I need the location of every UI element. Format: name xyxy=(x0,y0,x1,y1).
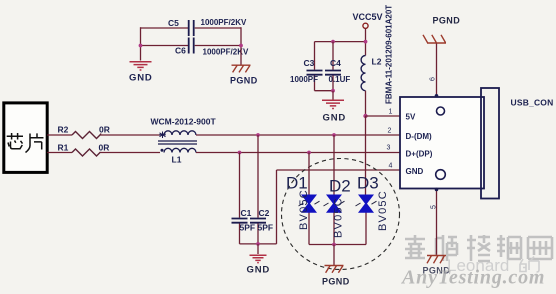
wire GND pin4 horizontal xyxy=(277,169,401,171)
svg-text:C2: C2 xyxy=(259,208,270,218)
junction D1 on D+ xyxy=(307,151,311,155)
connector shell rectangle xyxy=(481,88,499,199)
svg-text:0R: 0R xyxy=(99,142,110,152)
svg-text:R2: R2 xyxy=(58,125,69,135)
svg-text:PGND: PGND xyxy=(433,16,461,26)
svg-text:BV05C: BV05C xyxy=(298,189,310,230)
svg-text:4: 4 xyxy=(389,163,393,170)
wire C3/C4 branch xyxy=(315,41,366,43)
svg-text:D3: D3 xyxy=(357,174,379,193)
wire VCC vertical xyxy=(365,28,367,55)
pin 6 label xyxy=(430,77,437,81)
wire C1/C2 ground rail xyxy=(240,243,277,245)
power ground PGND top-left xyxy=(232,65,251,72)
svg-text:GND: GND xyxy=(406,167,424,176)
wire C5 right lead xyxy=(195,27,241,29)
svg-text:FBMA-11-201209-601A20T: FBMA-11-201209-601A20T xyxy=(385,5,394,104)
svg-text:0R: 0R xyxy=(99,125,110,135)
junction diode rail xyxy=(332,243,336,247)
wire C6 left lead xyxy=(141,45,189,47)
mounting hole top xyxy=(437,107,445,115)
svg-text:PGND: PGND xyxy=(322,277,350,287)
label FBMA-11-201209-601A20T xyxy=(385,5,394,104)
junction VCC branch xyxy=(364,40,368,44)
junction right rail/C6 xyxy=(239,44,243,48)
svg-text:0.1UF: 0.1UF xyxy=(329,75,351,84)
resistor R1 xyxy=(58,142,110,156)
capacitor C3 xyxy=(290,42,323,91)
wire right rail xyxy=(240,27,242,64)
mounting hole bottom xyxy=(436,170,446,180)
svg-text:PGND: PGND xyxy=(230,76,258,86)
dashed enclosure ellipse xyxy=(282,159,400,270)
svg-text:1000PF/2KV: 1000PF/2KV xyxy=(201,18,247,27)
svg-text:GND: GND xyxy=(129,73,153,84)
ground GND center xyxy=(322,100,344,108)
svg-text:GND: GND xyxy=(247,265,271,276)
pin numbers 1-4 xyxy=(387,109,393,170)
svg-text:AnyTesting.com: AnyTesting.com xyxy=(400,267,545,289)
svg-text:5PF: 5PF xyxy=(240,223,256,233)
capacitor C1 xyxy=(232,153,256,244)
svg-text:C1: C1 xyxy=(241,208,252,218)
svg-text:WCM-2012-900T: WCM-2012-900T xyxy=(151,117,217,127)
wire choke to pin 3 (D+ net) xyxy=(196,152,400,154)
wire GND pin4 vertical xyxy=(276,170,278,244)
svg-text:R1: R1 xyxy=(58,142,69,152)
wire PGND drop xyxy=(333,245,335,266)
svg-text:D+(DP): D+(DP) xyxy=(406,150,433,159)
junction VBUS xyxy=(363,114,367,118)
common-mode choke L1 xyxy=(151,117,217,165)
wire C6 right lead xyxy=(195,45,241,47)
wire C3/C4 bottom rail xyxy=(315,90,334,92)
wire connector pin 5 xyxy=(436,189,438,255)
TVS diode D3 xyxy=(356,116,390,245)
wire left rail xyxy=(140,27,142,60)
junction C2 on D- xyxy=(256,133,260,137)
wire L2 bottom xyxy=(365,91,367,116)
pin 6 connection dot xyxy=(435,94,439,98)
svg-text:3: 3 xyxy=(387,145,391,152)
wire choke to pin 2 (D- net) xyxy=(196,134,400,136)
watermark AnyTesting.com xyxy=(400,267,545,289)
junction C1 on D+ xyxy=(238,151,242,155)
svg-text:BV05C: BV05C xyxy=(377,190,389,231)
junction D2 on D- xyxy=(332,133,336,137)
junction left rail/C6 xyxy=(139,44,143,48)
junction C4 top xyxy=(331,40,335,44)
svg-text:C4: C4 xyxy=(330,58,341,68)
pin 5 connection dot xyxy=(435,188,439,192)
capacitor C6 xyxy=(175,38,249,57)
svg-text:GND: GND xyxy=(323,113,347,124)
power port VCC5V xyxy=(353,12,383,28)
wire R2 to choke xyxy=(101,134,161,136)
svg-text:1: 1 xyxy=(389,109,393,116)
TVS diode D1 xyxy=(286,153,320,245)
chip box 芯片 xyxy=(4,103,47,172)
wire GND drop xyxy=(332,91,334,100)
wire chip to R1 xyxy=(47,152,72,154)
wire PGND to connector pin 6 xyxy=(436,44,438,98)
svg-text:5: 5 xyxy=(431,205,438,209)
power ground PGND connector top xyxy=(423,16,460,44)
pin 5 label xyxy=(431,205,438,209)
wire R1 to choke xyxy=(101,152,161,154)
wire chip to R2 xyxy=(47,134,72,136)
svg-text:D-(DM): D-(DM) xyxy=(406,132,433,141)
ground GND bottom xyxy=(250,255,267,262)
wire C5 left lead xyxy=(141,27,189,29)
capacitor C5 xyxy=(168,18,247,36)
label USB_CON xyxy=(511,98,554,108)
pin labels inside connector xyxy=(406,113,433,177)
watermark big gray characters 嘉峪检测网 xyxy=(405,235,552,261)
wire to pin 1 xyxy=(366,115,401,117)
svg-text:5PF: 5PF xyxy=(258,223,274,233)
wire GND drop xyxy=(257,244,259,254)
resistor R2 xyxy=(58,125,110,139)
svg-text:VCC5V: VCC5V xyxy=(353,12,383,22)
svg-text:BV05C: BV05C xyxy=(332,197,344,238)
connector USB_CON box xyxy=(400,97,484,189)
svg-text:6: 6 xyxy=(430,77,437,81)
ground GND top-left xyxy=(130,62,152,70)
svg-text:USB_CON: USB_CON xyxy=(511,98,554,108)
junction C4 bottom xyxy=(331,89,335,93)
svg-text:5V: 5V xyxy=(406,113,416,122)
svg-text:D2: D2 xyxy=(329,177,351,196)
chip label 芯片 xyxy=(7,133,44,153)
svg-text:1000PF/2KV: 1000PF/2KV xyxy=(203,48,249,57)
svg-text:L1: L1 xyxy=(172,155,182,165)
svg-text:L2: L2 xyxy=(372,57,382,67)
TVS diode D2 xyxy=(324,135,351,245)
svg-text:C6: C6 xyxy=(175,46,186,56)
inductor L2 xyxy=(361,56,382,91)
power ground PGND diodes xyxy=(325,266,344,273)
svg-text:2: 2 xyxy=(388,128,392,135)
junction GND drop xyxy=(256,242,260,246)
svg-text:1000PF: 1000PF xyxy=(290,75,318,84)
watermark Leonard的 xyxy=(447,256,539,275)
svg-text:C3: C3 xyxy=(304,58,315,68)
capacitor C2 xyxy=(250,135,273,244)
wire diode PGND rail xyxy=(309,244,366,246)
svg-text:C5: C5 xyxy=(168,18,179,28)
power ground PGND connector bottom xyxy=(423,256,451,276)
capacitor C4 xyxy=(325,42,350,91)
